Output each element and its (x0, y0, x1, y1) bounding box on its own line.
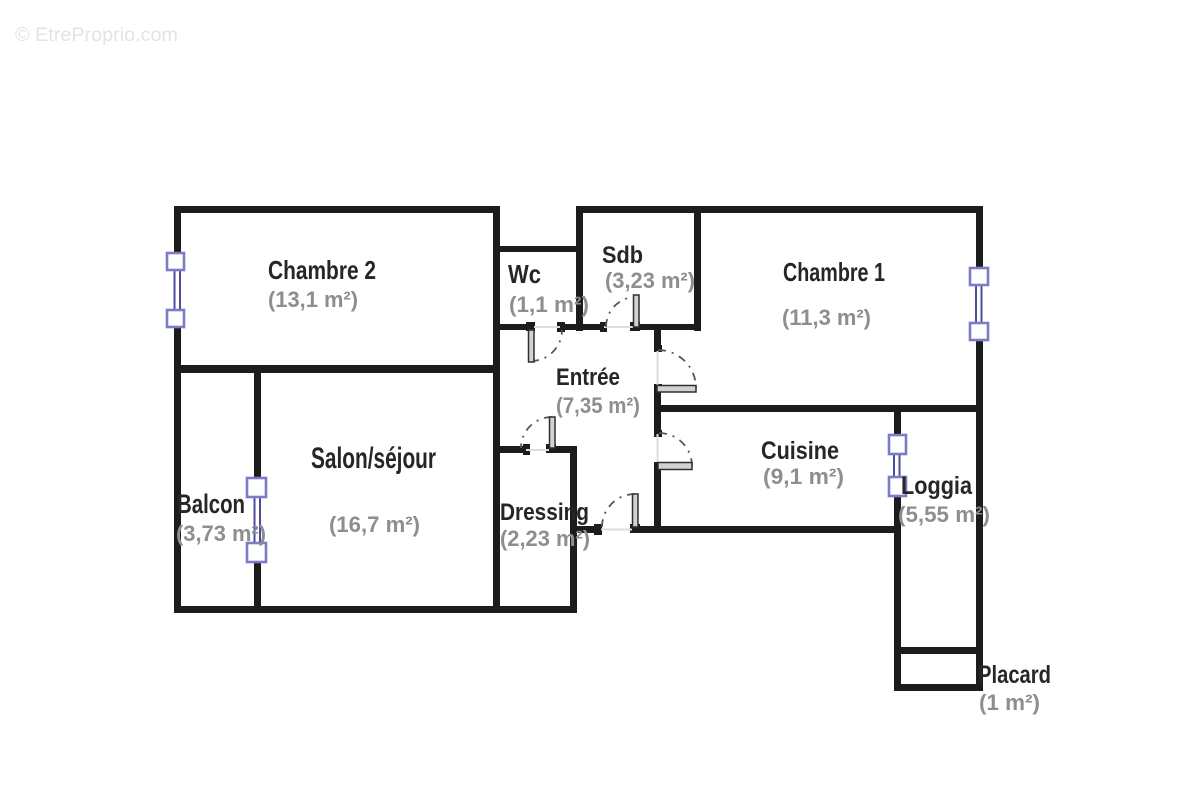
svg-text:Balcon: Balcon (177, 489, 245, 519)
svg-text:(2,23 m²): (2,23 m²) (500, 526, 590, 551)
svg-text:Entrée: Entrée (556, 364, 620, 391)
svg-text:Chambre 2: Chambre 2 (268, 255, 376, 285)
svg-text:Salon/séjour: Salon/séjour (311, 442, 436, 475)
svg-text:(1 m²): (1 m²) (979, 690, 1040, 715)
svg-text:(11,3 m²): (11,3 m²) (782, 305, 871, 330)
svg-text:Cuisine: Cuisine (761, 437, 839, 465)
svg-text:Dressing: Dressing (500, 499, 589, 526)
svg-text:Loggia: Loggia (901, 472, 973, 500)
svg-text:(16,7 m²): (16,7 m²) (329, 512, 420, 537)
svg-text:(5,55 m²): (5,55 m²) (898, 502, 990, 527)
svg-text:© EtreProprio.com: © EtreProprio.com (15, 25, 178, 46)
svg-text:Wc: Wc (508, 259, 541, 289)
svg-text:(3,23 m²): (3,23 m²) (605, 268, 695, 293)
svg-text:(13,1 m²): (13,1 m²) (268, 287, 358, 312)
svg-text:(7,35 m²): (7,35 m²) (556, 393, 640, 418)
svg-text:(1,1 m²): (1,1 m²) (509, 292, 589, 317)
svg-text:Sdb: Sdb (602, 242, 643, 269)
svg-text:(3,73 m²): (3,73 m²) (176, 521, 266, 546)
svg-text:Chambre 1: Chambre 1 (783, 257, 885, 287)
svg-text:Placard: Placard (978, 661, 1051, 689)
svg-text:(9,1 m²): (9,1 m²) (763, 464, 844, 489)
